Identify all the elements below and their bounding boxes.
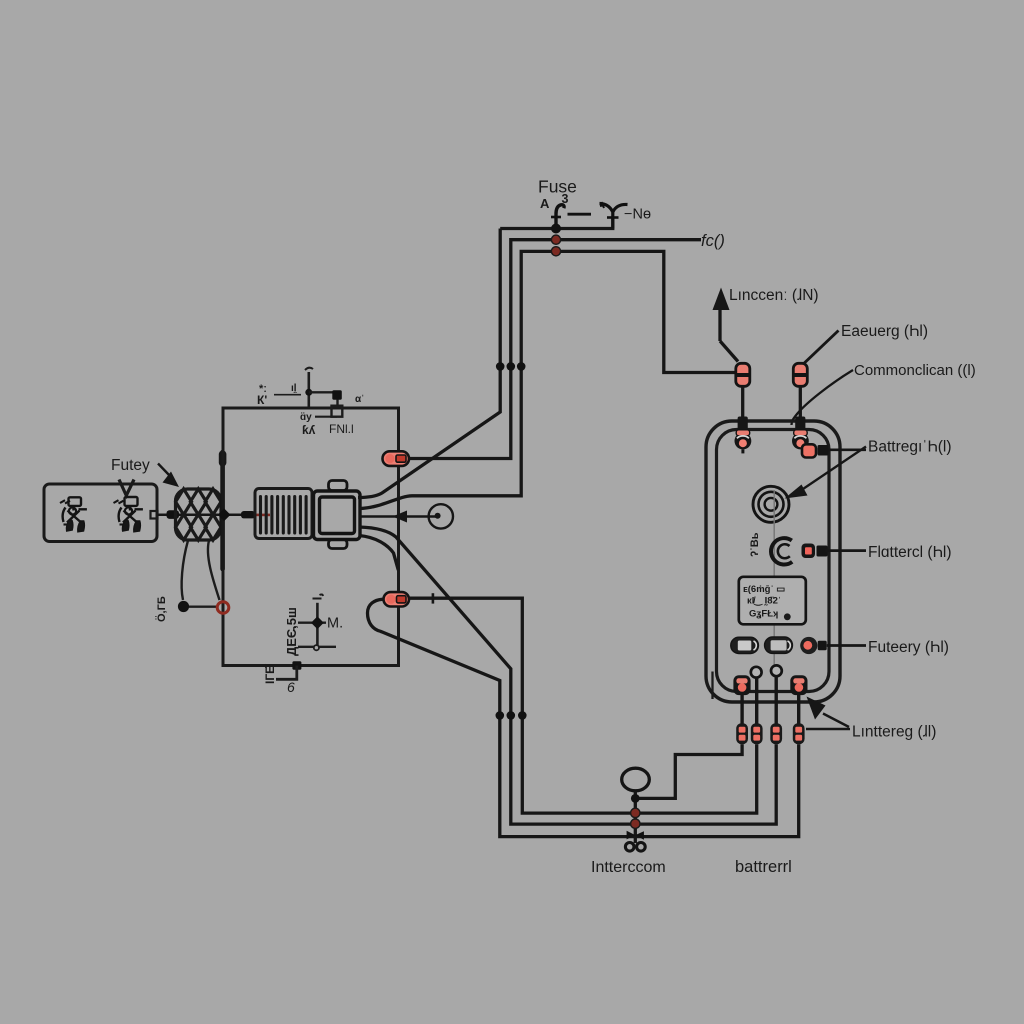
assembly frame [223,408,399,666]
svg-text:ƙʎ: ƙʎ [302,423,316,437]
tap dot [178,601,189,612]
wire P2 U-turn run [368,599,799,836]
inline connector J2 [793,363,807,417]
tap wire [189,606,217,608]
bottom port L [733,675,750,695]
plug connector PC4 [793,723,805,744]
FNI glyphs [257,383,364,437]
panel inner frame [717,430,830,692]
svg-text:Lınccenː (ɺN): Lınccenː (ɺN) [729,287,819,304]
junction dots mid [496,362,526,371]
wire PC1 staircase [639,744,742,798]
relay K1 [314,481,361,549]
wire relay pin4 [359,536,398,571]
pin wires through panel bottom [742,676,799,724]
svg-text:6: 6 [287,679,295,695]
muzzle connector P1 [383,451,410,466]
svg-text:Intterccom: Intterccom [591,859,666,876]
bottom port R [790,675,807,695]
svg-text:battrerrl: battrerrl [735,858,792,876]
cell symbol G1 [60,497,87,532]
wire Commonclican callout [792,370,854,425]
svg-text:Fuse: Fuse [538,177,577,197]
junction diamond [218,508,231,521]
FNI node [305,368,342,417]
Futeery connector [800,637,866,654]
plug connector PC1 [736,723,748,744]
panel stub line [711,672,713,700]
C ring jack [771,538,792,564]
svg-text:A: A [540,196,550,211]
svg-text:BattregıˈҺ(l): BattregıˈҺ(l) [868,439,952,456]
tap ring [217,602,229,614]
coil drop wires [182,541,220,601]
svg-text:Lınttereg (ɺl): Lınttereg (ɺl) [852,724,936,741]
svg-text:Ӧ,ГБ: Ӧ,ГБ [155,596,168,622]
svg-text:ІГЕ̐: ІГЕ̐ [262,663,277,684]
svg-text:Eaeuerg (Һl): Eaeuerg (Һl) [841,323,928,340]
frame bottom tap [276,661,301,679]
svg-text:Futey: Futey [111,457,150,474]
bus 1 [500,217,613,229]
inductor coil L1 [176,489,222,540]
intercom head [622,768,650,851]
svg-text:ɑ̈y: ɑ̈y [300,411,312,423]
inline connector J1 [736,363,750,417]
plug connector PC3 [770,723,782,744]
washer W2 [771,665,782,676]
svg-text:Кʹ: Кʹ [257,393,267,407]
meter circle [429,504,453,528]
cell symbol G2 [114,497,143,532]
svg-text:M.: M. [327,616,343,632]
wire P2 right run [409,593,757,813]
washer W1 [751,667,762,678]
Linccen arrow [713,288,739,362]
terminal T1 [735,417,752,454]
svg-text:Futeery (Һl): Futeery (Һl) [868,639,949,656]
battery box B1 [44,480,158,542]
terminal T2 [792,417,809,450]
wire relay pin3 diagonal [359,527,776,824]
M probe [298,594,336,650]
wire relay pin2 to bus3 [359,251,736,508]
svg-text:ᴇ(6ṁḡˈ ▭: ᴇ(6ṁḡˈ ▭ [743,584,785,595]
svg-text:αˈ: αˈ [355,394,364,405]
heatsink HS1 [255,489,312,539]
panel center line [773,490,775,676]
Linttereg callout [806,697,850,730]
wire P1 to bus2 [409,240,701,459]
svg-text:−Nө: −Nө [624,207,651,223]
Battregi arrow to speaker [785,447,867,499]
junction dot bus1 [551,224,561,234]
button SW2 [765,637,793,653]
svg-text:кl̸‿ Ḭ8̏2ˈ: кl̸‿ Ḭ8̏2ˈ [747,596,781,608]
button SW1 [731,637,759,653]
nameplate [739,577,806,625]
thin link line [274,394,301,396]
svg-text:Flɑttercl (Һl): Flɑttercl (Һl) [868,544,952,561]
svg-text:GʓFŁʞ: GʓFŁʞ [749,609,778,620]
panel outer frame [706,421,840,702]
muzzle connector P2 [384,592,410,606]
Battregi connector [802,444,866,457]
plug connector PC2 [751,723,763,744]
svg-text:fc(): fc() [701,232,725,250]
speaker S1 [753,486,789,522]
svg-text:ʔˈBь: ʔˈBь [749,532,761,557]
wire J2 to Eaeuerg [804,331,839,364]
Futey arrow [158,464,179,488]
svg-text:FNl.l: FNl.l [329,422,354,436]
wire box to heatsink [158,510,256,519]
node dot bus2 [551,235,560,244]
wire relay pin1 to bus1 [358,229,500,498]
svg-text:ДЕЄ̵,5ш: ДЕЄ̵,5ш [284,607,299,656]
node dot bus3 [551,247,560,256]
svg-text:Commonclican ((l): Commonclican ((l) [854,362,976,379]
wire arrow to meter [359,511,437,523]
fuse element F1 [551,202,628,229]
Flettercl connector [802,544,867,559]
junction dots low [496,711,527,720]
capacitor bar C1 [220,452,225,569]
